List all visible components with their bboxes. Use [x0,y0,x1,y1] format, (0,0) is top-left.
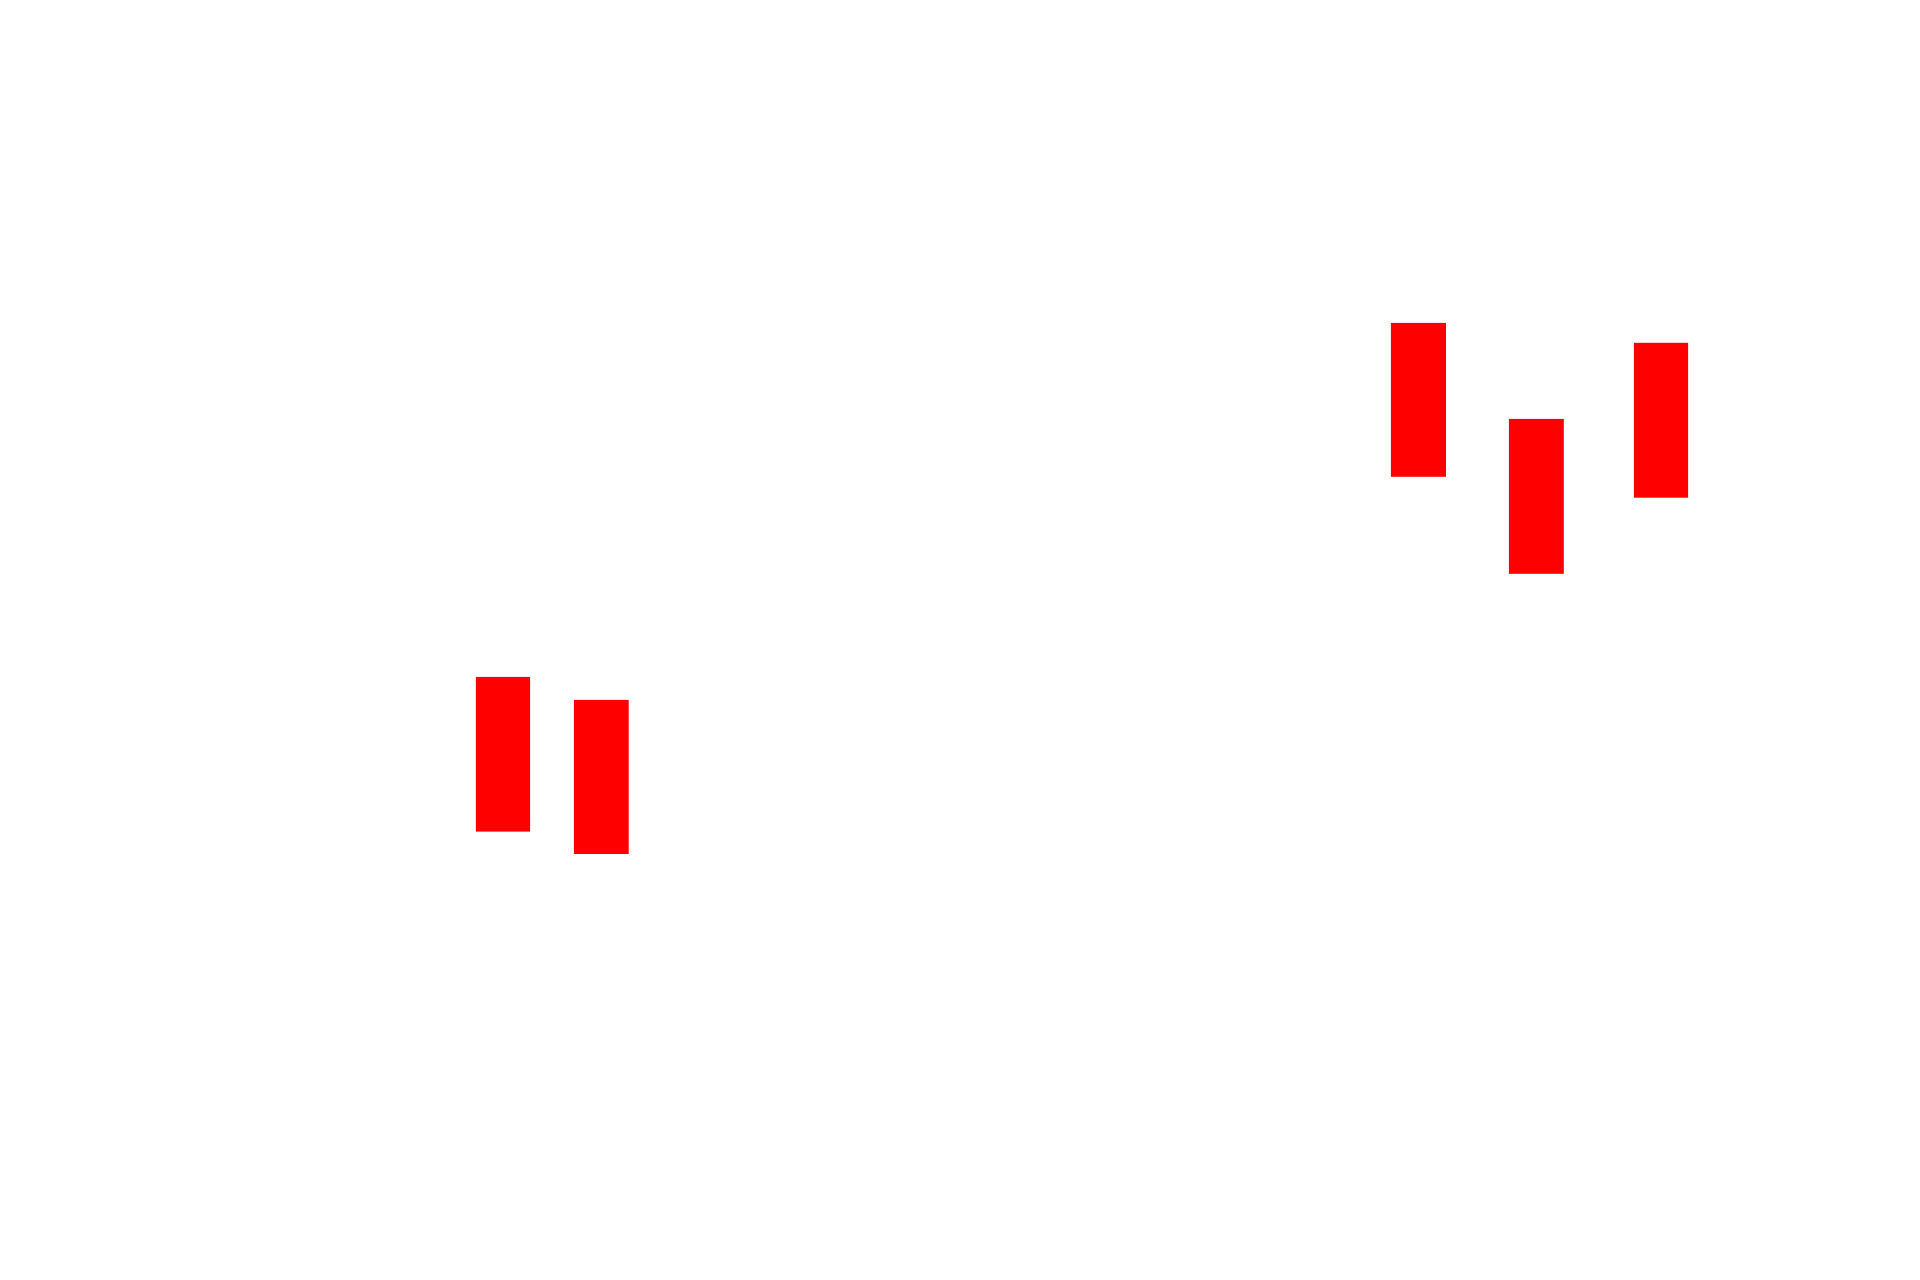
candle body 4 (falling, right group) [1509,419,1564,574]
candle body 1 (falling, left group) [476,677,530,832]
candle body 5 (falling, right group) [1634,343,1688,498]
candle body 3 (falling, right group) [1391,323,1446,477]
candle body 2 (falling, left group) [574,700,629,854]
